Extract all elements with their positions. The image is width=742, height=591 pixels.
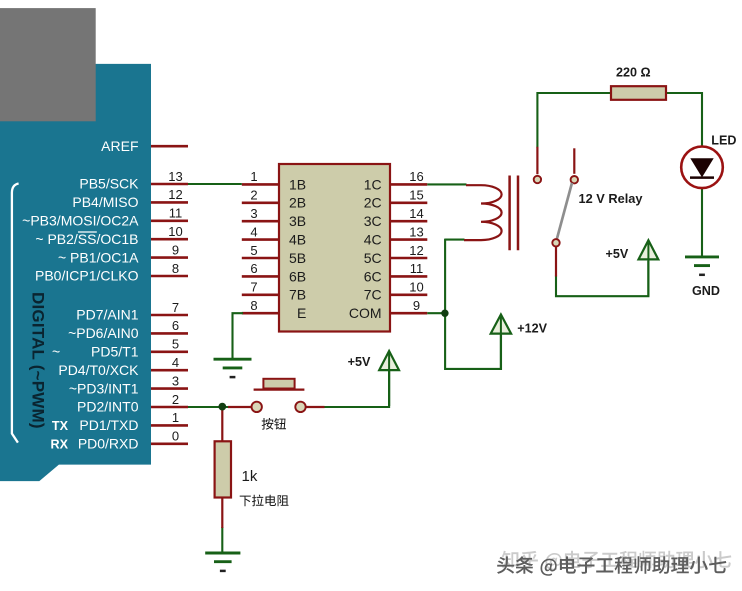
- svg-text:2: 2: [250, 188, 257, 203]
- svg-text:+5V: +5V: [348, 355, 371, 369]
- svg-text:16: 16: [409, 169, 423, 184]
- watermark dark: [497, 556, 726, 576]
- svg-text:1B: 1B: [289, 176, 306, 192]
- button right pin: [306, 406, 325, 408]
- svg-text:5C: 5C: [364, 250, 382, 266]
- svg-text:~PD3/INT1: ~PD3/INT1: [69, 380, 139, 396]
- svg-text:5B: 5B: [289, 250, 306, 266]
- resistor R2 220ohm body: [611, 86, 666, 100]
- svg-text:0: 0: [172, 429, 179, 444]
- svg-text:14: 14: [409, 206, 423, 221]
- svg-text:4B: 4B: [289, 232, 306, 248]
- pin PB1/OC1A stub: [58, 242, 188, 265]
- LED D1: [681, 147, 723, 189]
- pin PD5/T1 stub: [52, 337, 188, 360]
- svg-text:2B: 2B: [289, 195, 306, 211]
- chip pin 12 (5C): [364, 243, 428, 266]
- svg-text:E: E: [297, 305, 306, 321]
- svg-text:13: 13: [168, 169, 182, 184]
- watermark light: [502, 551, 732, 571]
- junction node COM/+12V: [441, 310, 448, 317]
- chip pin 15 (2C): [364, 188, 428, 211]
- svg-text:COM: COM: [349, 305, 382, 321]
- chip pin 13 (4C): [364, 224, 428, 247]
- button label (anniu): [262, 418, 286, 430]
- ground (LED): [685, 257, 719, 275]
- svg-text:12: 12: [409, 243, 423, 258]
- relay core: [510, 176, 518, 251]
- wire 220R right to LED: [666, 93, 702, 147]
- svg-text:12: 12: [168, 187, 182, 202]
- pin PD0/RXD stub: [78, 429, 188, 452]
- svg-text:8: 8: [172, 261, 179, 276]
- relay common terminal: [552, 239, 559, 246]
- pin PB3/MOSI/OC2A stub: [22, 206, 188, 229]
- svg-text:2C: 2C: [364, 195, 382, 211]
- wire relay switch to +5V: [556, 261, 648, 296]
- svg-text:12 V Relay: 12 V Relay: [579, 191, 644, 206]
- svg-text:11: 11: [169, 206, 183, 221]
- svg-text:2: 2: [172, 392, 179, 407]
- svg-text:PD5/T1: PD5/T1: [91, 344, 139, 360]
- svg-text:DIGITAL (~PWM): DIGITAL (~PWM): [29, 292, 48, 429]
- relay contact terminal (NO): [534, 176, 541, 183]
- svg-text:PD2/INT0: PD2/INT0: [77, 399, 139, 415]
- svg-text:7: 7: [172, 300, 179, 315]
- svg-text:+5V: +5V: [606, 247, 629, 261]
- svg-text:4C: 4C: [364, 232, 382, 248]
- svg-text:7C: 7C: [364, 287, 382, 303]
- svg-text:PD0/RXD: PD0/RXD: [78, 436, 139, 452]
- pin PB0/ICP1/CLKO stub: [35, 261, 188, 284]
- svg-text:3B: 3B: [289, 213, 306, 229]
- svg-text:15: 15: [409, 188, 423, 203]
- chip pin 4 (4B): [242, 224, 306, 247]
- relay armature: [557, 183, 572, 239]
- wire PB5(13) to chip 1B: [188, 183, 242, 185]
- Arduino board body U1: [0, 64, 151, 481]
- pin PD1/TXD stub: [79, 410, 188, 433]
- svg-text:3C: 3C: [364, 213, 382, 229]
- svg-text:AREF: AREF: [101, 138, 138, 154]
- chip pin 3 (3B): [242, 206, 306, 229]
- svg-text:4: 4: [172, 355, 179, 370]
- pin PB5/SCK stub: [79, 169, 188, 192]
- pin PD7/AIN1 stub: [76, 300, 188, 323]
- chip pin 8 (E): [242, 298, 307, 321]
- chip pin 9 (COM): [349, 298, 427, 321]
- svg-text:1C: 1C: [364, 176, 382, 192]
- pin AREF stub: [101, 138, 188, 154]
- svg-text:~: ~: [52, 344, 60, 360]
- relay switch lower pin: [555, 247, 557, 277]
- svg-text:PD1/TXD: PD1/TXD: [79, 417, 138, 433]
- svg-text:6C: 6C: [364, 268, 382, 284]
- ground (1k): [205, 553, 240, 571]
- chip pin 7 (7B): [242, 280, 306, 303]
- power +5V (button): [348, 351, 399, 406]
- svg-text:5: 5: [250, 243, 257, 258]
- svg-text:1: 1: [250, 169, 257, 184]
- svg-text:11: 11: [410, 261, 424, 276]
- wire button to +5V: [324, 371, 389, 407]
- pin PD2/INT0 stub: [77, 392, 188, 415]
- chip pin 5 (5B): [242, 243, 306, 266]
- svg-text:~PB3/MOSI/OC2A: ~PB3/MOSI/OC2A: [22, 213, 139, 229]
- pin PB2/SS/OC1B stub: [35, 224, 188, 247]
- pin PD4/T0/XCK stub: [58, 355, 188, 378]
- wire coil bottom to COM junction to +12V: [445, 239, 501, 369]
- pin PD6/AIN0 stub: [68, 318, 188, 341]
- svg-text:220 Ω: 220 Ω: [616, 66, 651, 80]
- svg-text:TX: TX: [52, 419, 69, 433]
- chip pin 2 (2B): [242, 188, 306, 211]
- svg-text:~ PB2/SS/OC1B: ~ PB2/SS/OC1B: [35, 231, 138, 247]
- svg-text:3: 3: [250, 206, 257, 221]
- svg-text:9: 9: [172, 242, 179, 257]
- power +12V: [491, 315, 548, 369]
- wire chip COM(9) to junction: [427, 312, 445, 314]
- svg-text:6B: 6B: [289, 268, 306, 284]
- svg-text:1: 1: [172, 410, 179, 425]
- wire 220R left to relay contact: [537, 93, 611, 148]
- wire PD2(2) to junction/button: [188, 406, 229, 408]
- wire chip E(8) to ground: [233, 313, 244, 358]
- svg-text:GND: GND: [692, 284, 720, 298]
- power +5V (relay): [606, 240, 659, 296]
- driver chip U2 body: [279, 164, 390, 332]
- svg-text:LED: LED: [711, 134, 736, 148]
- svg-text:6: 6: [172, 318, 179, 333]
- svg-text:10: 10: [168, 224, 182, 239]
- wire 1k to ground: [221, 527, 223, 552]
- chip pin 10 (7C): [364, 280, 428, 303]
- ground (chip E): [214, 359, 252, 377]
- chip pin 11 (6C): [364, 261, 428, 284]
- relay pole pin: [573, 148, 575, 174]
- chip pin 14 (3C): [364, 206, 428, 229]
- relay pole terminal: [571, 176, 578, 183]
- svg-text:PB5/SCK: PB5/SCK: [79, 176, 139, 192]
- DIGITAL (~PWM) bracket: [12, 184, 19, 443]
- wire LED cathode to GND: [701, 189, 703, 256]
- svg-text:1k: 1k: [242, 468, 258, 485]
- svg-text:8: 8: [250, 298, 257, 313]
- svg-text:+12V: +12V: [517, 322, 547, 336]
- svg-text:PB4/MISO: PB4/MISO: [72, 194, 138, 210]
- chip pin 6 (6B): [242, 261, 306, 284]
- svg-text:7B: 7B: [289, 287, 306, 303]
- chip pin 1 (1B): [242, 169, 306, 192]
- relay RL1 coil: [464, 185, 502, 240]
- svg-text:4: 4: [250, 224, 257, 239]
- svg-text:PD4/T0/XCK: PD4/T0/XCK: [58, 362, 139, 378]
- pulldown resistor label (xiala dianzu): [240, 495, 289, 507]
- 1k resistor top pin: [221, 406, 223, 441]
- svg-text:10: 10: [409, 280, 423, 295]
- pin PD3/INT1 stub: [69, 373, 188, 396]
- svg-text:9: 9: [413, 298, 420, 313]
- button left pin: [228, 406, 251, 408]
- svg-text:7: 7: [250, 280, 257, 295]
- wire chip 1C(16) to relay coil top: [427, 183, 466, 185]
- pushbutton S1: [252, 379, 306, 412]
- svg-text:~PD6/AIN0: ~PD6/AIN0: [68, 325, 139, 341]
- svg-text:~ PB1/OC1A: ~ PB1/OC1A: [58, 249, 139, 265]
- pin PB4/MISO stub: [72, 187, 188, 210]
- junction node PD2/button/1k: [218, 403, 226, 411]
- svg-text:PD7/AIN1: PD7/AIN1: [76, 307, 138, 323]
- wire relay coil bottom: [445, 239, 464, 241]
- svg-text:3: 3: [172, 373, 179, 388]
- svg-text:5: 5: [172, 337, 179, 352]
- 1k resistor bottom pin: [221, 498, 223, 529]
- svg-text:PB0/ICP1/CLKO: PB0/ICP1/CLKO: [35, 268, 139, 284]
- relay contact pin: [536, 147, 538, 174]
- svg-text:6: 6: [250, 261, 257, 276]
- svg-text:13: 13: [409, 224, 423, 239]
- USB connector block: [0, 8, 96, 121]
- chip pin 16 (1C): [364, 169, 428, 192]
- svg-text:RX: RX: [51, 438, 69, 452]
- resistor R1 1k body: [215, 441, 231, 497]
